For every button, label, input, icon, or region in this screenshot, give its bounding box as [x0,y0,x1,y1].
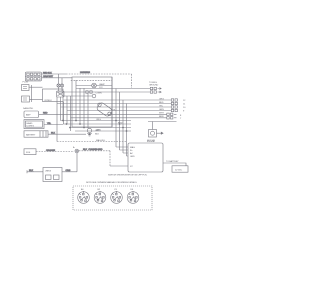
circle small center [92,94,96,98]
svg-text:HEAD: HEAD [27,122,33,125]
svg-text:BATTERY: BATTERY [26,133,36,136]
engine pins [110,146,135,168]
vertical bundle right [112,77,127,156]
wire W out [63,95,92,97]
svg-text:A: A [73,146,75,149]
svg-text:BLK: BLK [29,170,33,172]
wire reverse right [62,170,77,172]
svg-text:B2: B2 [98,189,101,191]
connector pair center [86,91,102,95]
wire C3 short [148,122,177,130]
wire B1 [64,98,187,102]
svg-text:11: 11 [183,104,186,106]
vertical bundle center [76,80,88,128]
connector P3 [22,82,32,102]
svg-text:(REV): (REV) [46,171,52,173]
junction dots [62,120,127,136]
wire B4 [67,109,185,113]
wire dashed right of JX [79,148,110,166]
svg-text:WHT: WHT [159,113,164,115]
svg-text:B+: B+ [130,150,133,152]
svg-text:LIGHTS: LIGHTS [27,126,35,128]
svg-text:ORANGE: ORANGE [46,149,56,152]
wire trunk dashed [66,71,132,88]
svg-text:ORG: ORG [159,98,164,100]
svg-text:BLK: BLK [51,133,55,135]
wire P3-a [32,86,43,88]
svg-text:RED: RED [159,102,164,104]
svg-text:SWITCH SHOWN WITH KEY IN OFF P: SWITCH SHOWN WITH KEY IN OFF POS. [108,175,148,177]
lights box [24,120,44,129]
svg-text:ST: ST [130,166,133,168]
svg-text:MAG KILL: MAG KILL [96,139,106,142]
svg-text:GND: GND [130,156,135,158]
svg-text:8: 8 [180,115,182,117]
switch detail box [73,186,152,210]
wire C1 connector [159,113,182,117]
reverse switch box [43,168,62,182]
ammeter box [23,107,39,118]
wire JX down [76,153,78,172]
wire C2 [71,116,183,120]
svg-text:CONN: CONN [96,92,103,94]
svg-text:FUS: FUS [26,152,31,154]
svg-text:D4: D4 [131,189,134,191]
svg-text:9: 9 [183,111,185,113]
wire ammeter [39,113,167,115]
svg-text:RED: RED [43,113,48,115]
svg-text:C3: C3 [114,189,117,191]
wire dashed strip [71,79,112,81]
wire eng A2 [57,91,161,93]
wire fuse dashed [36,149,74,152]
svg-text:AC: AC [130,152,133,155]
svg-text:BRN: BRN [159,116,164,118]
svg-text:10: 10 [183,107,186,109]
wire lights [44,123,63,125]
bus rows center [61,119,132,132]
svg-text:RED BLK: RED BLK [43,72,52,74]
switch position 1 [78,188,90,204]
wire P3-b [32,98,43,100]
ground node [87,128,100,136]
svg-text:PLUG: PLUG [23,82,29,84]
label to engine [149,82,159,87]
fuse F1 [57,74,64,91]
svg-text:BLK CHASSIS GND: BLK CHASSIS GND [83,148,103,151]
svg-text:12: 12 [183,100,186,102]
wire eng A1 [76,87,161,89]
svg-text:ORG WHT: ORG WHT [43,76,54,78]
svg-text:ORG: ORG [66,170,71,172]
engine box [128,141,163,172]
svg-text:NOTE SEE OWNERS MANUAL FOR WIR: NOTE SEE OWNERS MANUAL FOR WIRING DETAIL… [86,181,137,184]
svg-text:ENGINE: ENGINE [147,141,155,143]
indicator lamp [92,83,105,89]
vertical bundle left [57,96,71,142]
battery block right [172,166,188,172]
svg-text:GROUND: GROUND [149,85,159,87]
svg-text:7: 7 [180,118,182,120]
switch S1 [57,91,65,97]
svg-text:12 VDC: 12 VDC [175,169,183,171]
svg-text:A1: A1 [81,188,84,191]
wire B3 [61,105,187,109]
connector P1P2 block [25,72,41,81]
wire lamp row [76,85,112,87]
svg-text:GRN: GRN [96,129,101,131]
svg-text:ORG: ORG [96,119,101,121]
junction connector JX [73,146,79,153]
switch position 4 [127,189,139,204]
svg-text:BLK: BLK [95,133,99,135]
svg-text:AMP: AMP [26,114,31,117]
svg-text:GRN: GRN [159,109,164,111]
wire dashed kill [57,139,126,142]
harness box [72,77,112,127]
switch position 2 [94,189,106,204]
svg-text:TO BATTERY: TO BATTERY [166,160,179,163]
wire reverse left [27,170,43,173]
wire P2 out [42,76,73,120]
key switch box [147,130,163,143]
interlock box W [43,89,64,102]
svg-text:DASH PNL: DASH PNL [23,107,34,110]
solenoid [96,102,116,117]
switch position 3 [111,189,123,204]
wire engine out [163,160,186,166]
svg-text:LAMP: LAMP [99,83,105,86]
wire P1 out [42,72,67,74]
battery box [24,131,48,137]
svg-text:MAG: MAG [130,146,135,149]
fuse holder box [24,149,36,155]
wire battery [48,133,86,135]
wire B2 [57,102,186,106]
svg-text:HARNESS: HARNESS [80,71,91,74]
svg-text:INTRLK: INTRLK [45,100,53,102]
